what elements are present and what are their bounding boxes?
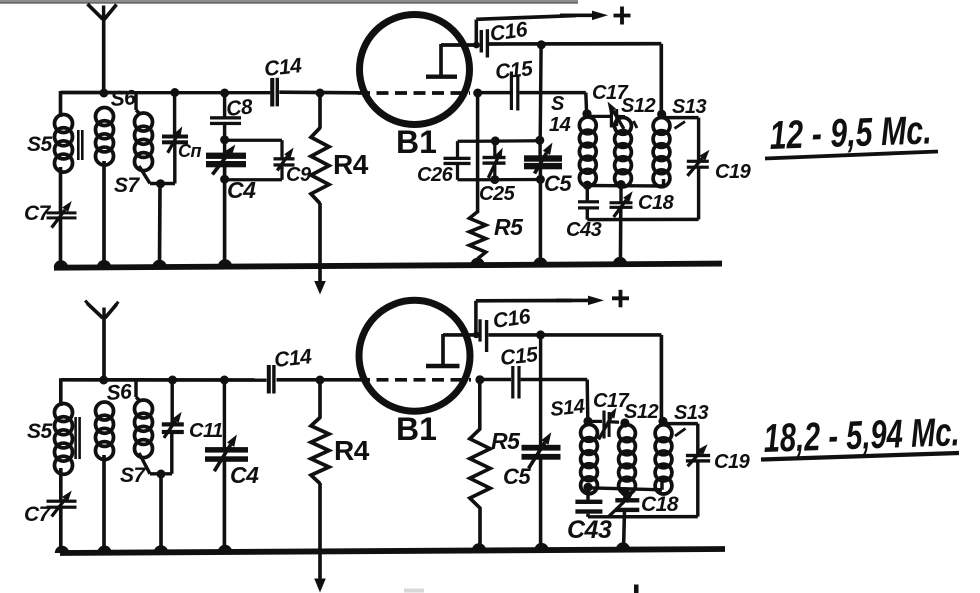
wire node180 (top): [478, 178, 541, 182]
wire plate riser (top): [475, 20, 479, 47]
wire R4 top lead (bottom): [318, 380, 322, 419]
wire C19 bottom link (top): [697, 169, 700, 220]
wire S5-C7 (bottom): [59, 468, 63, 500]
label C17 (top): [592, 82, 629, 104]
wire plate riser (bottom): [474, 301, 478, 337]
core S5/S6 (bottom): [74, 417, 81, 459]
coil S14 (top): [579, 117, 596, 186]
label S5 (top): [27, 133, 53, 156]
wire C26 bracket bottom (top): [458, 165, 478, 180]
label S6 (top): [110, 86, 137, 111]
svg-text:C26: C26: [417, 164, 454, 186]
node C16/C5 riser (top): [537, 40, 546, 49]
plus terminal (bottom): [612, 290, 629, 308]
tube B1 anode (top): [426, 44, 477, 77]
label C43 (bottom): [567, 516, 612, 544]
capacitor C7 (top): [47, 201, 77, 228]
wire S7 top lead (bottom): [136, 379, 140, 401]
capacitor C11 (bottom): [162, 412, 184, 438]
coil S5 (top): [55, 115, 73, 173]
capacitor Cp (top): [162, 126, 188, 153]
node C4 top (top): [220, 135, 229, 144]
wire C7-ground (top): [54, 218, 68, 268]
node C4 branch (bottom): [220, 376, 229, 385]
svg-text:B1: B1: [396, 124, 437, 160]
svg-text:C25: C25: [479, 183, 516, 205]
coil S14 (bottom): [581, 425, 598, 494]
wire C43 top lead (bottom): [586, 487, 589, 500]
coil S7 (top): [135, 113, 153, 171]
wire Cp bottom lead (top): [173, 144, 176, 184]
capacitor C14 (top): [270, 78, 279, 107]
wire C9 top link (top): [225, 140, 282, 157]
label C18 (bottom): [641, 493, 679, 516]
wire C8 top lead (top): [223, 93, 226, 117]
svg-text:C18: C18: [638, 192, 675, 214]
wire tank bottom (bottom): [588, 482, 662, 490]
coil S12 (bottom): [619, 425, 636, 494]
svg-text:C14: C14: [263, 54, 303, 81]
node antenna junction (top): [99, 89, 108, 98]
resistor R5 (bottom): [470, 429, 490, 508]
node S12 bottom (top): [616, 180, 625, 189]
node C5 top (top): [535, 136, 544, 145]
label S14 (bottom): [549, 395, 586, 420]
tube B1 envelope (bottom): [359, 300, 470, 411]
wire C19 bottom link (bottom): [696, 463, 699, 517]
wire C7-ground (bottom): [55, 507, 69, 553]
label C4 (top): [227, 177, 256, 203]
tube B1 cathode dashed (top): [358, 91, 470, 95]
label C26 (top): [417, 164, 454, 186]
wire +B line (top): [476, 11, 608, 21]
label S5 (bottom): [27, 420, 53, 443]
capacitor C26 (top): [444, 157, 471, 165]
wire C19 top link (bottom): [667, 424, 698, 455]
wire R4-ground arrow (top): [314, 203, 326, 295]
wire C15 left lead (bottom): [483, 378, 511, 381]
plus terminal (top): [614, 7, 631, 25]
edge smudge: [404, 589, 424, 593]
node S14 top (top): [582, 109, 591, 118]
node plate junction (top): [473, 42, 480, 49]
wire C18 top lead (top): [619, 185, 622, 202]
node S7/C11 bottom (bottom): [157, 470, 166, 479]
svg-text:14: 14: [549, 114, 571, 136]
tube B1 envelope (top): [360, 15, 470, 125]
label B1 (top): [396, 124, 437, 160]
ground bus (top): [54, 264, 722, 268]
wire C43 top lead (top): [586, 185, 589, 201]
label C17 (bottom): [593, 390, 630, 412]
node S13 top (bottom): [658, 417, 667, 426]
wire C43 bottom lead (top): [586, 210, 589, 220]
coil S6 (top): [96, 108, 114, 166]
node cathode (top): [473, 89, 482, 98]
node plate junction (bottom): [473, 332, 480, 339]
svg-text:C8: C8: [225, 95, 254, 121]
wire C19 top link (top): [665, 118, 699, 160]
coil S13 (bottom): [655, 425, 672, 494]
capacitor C17 (bottom): [599, 408, 617, 440]
svg-text:B1: B1: [396, 411, 437, 447]
wire C11 bottom lead (bottom): [170, 434, 173, 474]
label C18 (top): [638, 192, 675, 214]
svg-text:S13: S13: [674, 402, 708, 424]
wire R5-ground (bottom): [472, 507, 486, 551]
wire S13 drop (top): [659, 44, 663, 114]
tick S12 hook (top): [634, 121, 638, 128]
tube B1 anode (bottom): [426, 334, 477, 366]
coil S13 (top): [653, 118, 670, 187]
svg-text:R4: R4: [334, 435, 370, 466]
svg-text:R5: R5: [494, 214, 524, 240]
wire S7 bottom lead (top): [139, 166, 175, 184]
wire S7 bottom-ground (top): [152, 184, 166, 267]
wire C26 bracket top (top): [458, 141, 478, 157]
svg-text:C43: C43: [566, 219, 602, 241]
ground bus (bottom): [60, 549, 725, 553]
svg-text:S12: S12: [621, 95, 655, 117]
node R4 top (bottom): [316, 376, 325, 385]
capacitor C18 (top): [610, 191, 633, 217]
svg-text:C43: C43: [567, 516, 612, 544]
wire C4 top stub (top): [223, 140, 226, 154]
label S12 (bottom): [624, 401, 658, 423]
svg-text:S7: S7: [120, 464, 147, 487]
label C25 (top): [479, 183, 516, 205]
node C4 bottom (top): [220, 175, 229, 184]
wire +B line (bottom): [476, 296, 604, 306]
wire S5-C7 (top): [59, 167, 63, 212]
svg-text:S: S: [551, 93, 565, 115]
resistor R4 (bottom): [311, 418, 329, 484]
svg-text:S13: S13: [672, 96, 706, 118]
wire S7 bottom-ground (bottom): [154, 474, 168, 552]
node C11 branch (bottom): [168, 376, 177, 385]
wire C25 bottom stub (top): [493, 165, 496, 180]
capacitor C14 (bottom): [267, 365, 276, 394]
node C16/C5 riser (bottom): [536, 330, 545, 339]
svg-text:R5: R5: [491, 428, 521, 454]
label C16 (top): [488, 18, 529, 46]
svg-text:C15: C15: [494, 57, 534, 84]
label C19 (bottom): [714, 451, 751, 473]
capacitor C8 (top): [210, 116, 241, 125]
wire S7 top lead (top): [136, 92, 140, 114]
wire R5-ground (top): [470, 258, 484, 265]
svg-text:C19: C19: [714, 451, 751, 473]
wire riser to C5 (top): [538, 45, 542, 140]
label C8 (top): [225, 95, 254, 121]
label C16 (bottom): [491, 305, 532, 333]
label R4 (top): [333, 149, 369, 180]
wire C18 top lead (bottom): [623, 492, 626, 499]
wire cathode-R5 (bottom): [478, 380, 482, 430]
wire R4-ground arrow (bottom): [314, 483, 326, 593]
capacitor C5 (top): [524, 143, 562, 174]
label S7 (bottom): [120, 464, 147, 487]
wire input bus (top circuit): [61, 90, 359, 94]
capacitor C43 (top): [578, 200, 599, 209]
capacitor C25 (top): [483, 148, 506, 178]
label C15 (top): [494, 57, 534, 84]
capacitor C4 (bottom): [205, 435, 248, 472]
core S5/S6 (top): [77, 130, 84, 160]
capacitor C17 (top): [608, 102, 625, 130]
svg-text:C18: C18: [641, 493, 679, 516]
svg-text:S7: S7: [114, 174, 141, 197]
svg-text:S12: S12: [624, 401, 658, 423]
coil S5 (bottom): [55, 404, 73, 475]
wire S13 drop (bottom): [660, 335, 664, 421]
label C15 (bottom): [499, 343, 539, 370]
tube B1 cathode dashed (bottom): [358, 378, 471, 382]
svg-text:R4: R4: [333, 149, 369, 180]
capacitor C19 (bottom): [686, 444, 710, 466]
capacitor C16 (bottom): [478, 319, 488, 352]
label C7 (bottom): [24, 503, 52, 526]
svg-text:C7: C7: [24, 503, 52, 526]
svg-text:C7: C7: [24, 202, 52, 225]
label S13 (top): [672, 96, 706, 118]
resistor R5 (top): [469, 212, 485, 259]
antenna (top): [88, 4, 117, 93]
wire S5 top lead (bottom): [59, 378, 63, 406]
wire C15 left lead (top): [480, 91, 510, 94]
node Cp branch (top): [170, 88, 179, 97]
svg-text:C5: C5: [503, 464, 531, 489]
wire Cp top lead (top): [173, 93, 176, 136]
label C19 (top): [715, 161, 752, 183]
label frequency (top): [765, 108, 938, 158]
wire C15 output (bottom): [521, 380, 588, 422]
svg-text:C14: C14: [273, 345, 313, 372]
label frequency (bottom): [761, 410, 960, 461]
label C7 (top): [24, 202, 52, 225]
wire C9 bottom link (top): [225, 167, 282, 180]
capacitor C5 (bottom): [522, 432, 561, 468]
label C11 (bottom): [189, 420, 223, 442]
antenna (bottom): [85, 301, 118, 381]
label R4 (bottom): [334, 435, 370, 466]
label C14 (bottom): [273, 345, 313, 372]
label C9 (top): [286, 164, 312, 186]
node C8 branch (top): [220, 89, 229, 98]
node C25 top (top): [491, 136, 500, 145]
node cathode (bottom): [475, 375, 484, 384]
resistor R4 (top): [311, 128, 329, 204]
tick S13 hook (top): [675, 122, 686, 129]
capacitor C7 (bottom): [47, 491, 77, 517]
capacitor C16 (top): [480, 29, 490, 57]
wire input bus (bottom circuit): [61, 378, 358, 382]
label C4 (bottom): [230, 462, 259, 488]
wire node141 (top): [478, 139, 541, 143]
node S7/Cp bottom (top): [156, 179, 165, 188]
label S7 (top): [114, 174, 141, 197]
label C5 (top): [544, 171, 572, 196]
node S12 bottom (bottom): [620, 487, 629, 496]
capacitor C18 (bottom): [609, 493, 639, 516]
wire C4 top lead (bottom): [223, 380, 226, 448]
capacitor C4 (top): [206, 145, 246, 175]
svg-text:Сп: Сп: [178, 141, 201, 161]
label C43 (top): [566, 219, 602, 241]
svg-text:C19: C19: [715, 161, 752, 183]
wire S7 bottom lead (bottom): [139, 453, 172, 474]
wire C5-ground (top): [533, 169, 547, 265]
capacitor C15 (top): [510, 72, 520, 111]
svg-text:S6: S6: [106, 380, 133, 405]
node S14 bottom (top): [583, 181, 592, 190]
node S13 top (top): [657, 110, 666, 119]
label R5 (top): [494, 214, 524, 240]
wire C43 bottom lead (bottom): [586, 514, 589, 517]
wire riser to C5 (bottom): [539, 335, 542, 446]
wire C15 output (top): [520, 93, 587, 113]
svg-text:S5: S5: [27, 420, 53, 443]
capacitor C19 (top): [687, 150, 710, 176]
node S14 bottom (bottom): [583, 483, 592, 492]
label S12 (top): [621, 95, 655, 117]
capacitor C43 (bottom): [575, 500, 602, 514]
wire cathode-R5 (top): [476, 93, 480, 213]
wire C17 link (bottom): [588, 420, 619, 424]
label C5 (bottom): [503, 464, 531, 489]
wire C17 link (top): [587, 115, 625, 119]
wire C5 top stub (top): [538, 140, 541, 156]
node S14 top (bottom): [583, 417, 592, 426]
wire C5-ground (bottom): [534, 459, 548, 550]
svg-text:S5: S5: [27, 133, 53, 156]
wire C25 top stub (top): [493, 141, 496, 157]
label R5 (bottom): [491, 428, 521, 454]
node S12 top (bottom): [620, 418, 629, 427]
wire C8-C4 lead (top): [223, 125, 226, 141]
wire C4-ground (top): [218, 167, 232, 267]
wire C18-ground (bottom): [616, 511, 630, 550]
wire C11 top lead (bottom): [170, 380, 173, 423]
wire tank bottom (top): [587, 179, 664, 186]
wire C16 output (top): [489, 42, 661, 46]
wire S5 top lead (top): [59, 91, 63, 117]
label B1 (bottom): [396, 411, 437, 447]
label C14 (top): [263, 54, 303, 81]
node C5 bottom (top): [536, 175, 545, 184]
svg-text:S6: S6: [110, 86, 137, 111]
wire tank lower rail (top): [587, 218, 698, 222]
svg-text:C11: C11: [189, 420, 223, 442]
coil S6 (bottom): [96, 402, 114, 460]
label S14 (top): [549, 93, 571, 136]
node antenna junction (bottom): [99, 376, 108, 385]
svg-text:C5: C5: [544, 171, 572, 196]
node R4 top (top): [316, 89, 325, 98]
svg-text:S14: S14: [549, 395, 586, 420]
svg-text:C15: C15: [499, 343, 539, 370]
wire S6-ground (top): [97, 161, 111, 267]
label Cp (top): [178, 141, 201, 161]
tick S13 hook (bottom): [675, 429, 686, 437]
wire R4 top lead (top): [318, 93, 322, 129]
wire C4-ground (bottom): [218, 461, 232, 552]
label S6 (bottom): [106, 380, 133, 405]
wire C18-ground (top): [613, 208, 627, 264]
coil S12 (top): [615, 118, 632, 187]
coil S7 (bottom): [135, 400, 153, 458]
scan edge bar: [0, 0, 578, 4]
label S13 (bottom): [674, 402, 708, 424]
node C25 bottom (top): [490, 175, 499, 184]
capacitor C9 (top): [274, 148, 295, 171]
edge tick: [634, 585, 639, 593]
svg-text:12 - 9,5 Mc.: 12 - 9,5 Mc.: [769, 108, 932, 158]
wire C16 output (bottom): [489, 333, 662, 337]
wire S6-ground (bottom): [97, 455, 111, 553]
capacitor C15 (bottom): [511, 366, 520, 399]
svg-text:C4: C4: [230, 462, 259, 488]
wire tank lower rail (bottom): [588, 515, 698, 519]
